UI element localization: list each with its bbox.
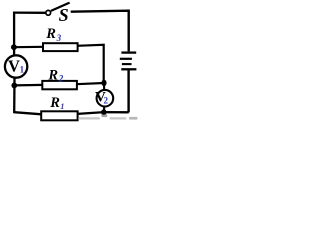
wire V2 top stub — [103, 83, 105, 90]
wire R3 row right, corner down to node — [77, 45, 104, 83]
resistor R1 body — [41, 111, 77, 120]
resistor R2 body — [42, 81, 77, 89]
svg-text:2: 2 — [104, 96, 109, 106]
svg-text:R: R — [47, 67, 58, 83]
svg-text:V: V — [8, 56, 20, 75]
node dot (R3/R2/V2 junction) — [101, 80, 106, 86]
wire R3 row left — [14, 46, 44, 49]
wire bottom (right corner to V2 node to R1 right) — [78, 112, 129, 114]
wire R2 row right to node — [76, 83, 104, 84]
wire left vertical (V1 bottom to bottom-left corner) — [13, 78, 16, 113]
switch S pole circle — [46, 10, 51, 15]
resistor R3 body — [43, 43, 78, 51]
wire V2 bottom stub — [103, 107, 105, 113]
battery plate 3 (short) — [122, 63, 132, 65]
junction dot V2 bottom — [101, 109, 106, 115]
switch S blade — [51, 3, 70, 11]
svg-text:1: 1 — [60, 101, 64, 111]
junction dot on left vertical at R2 row — [11, 83, 17, 89]
junction dot on left vertical at R3 row — [11, 44, 17, 50]
battery plate 1 (long, top) — [121, 51, 136, 53]
background — [0, 0, 141, 123]
wire bottom-left (R1 left to bottom-left corner) — [14, 112, 41, 114]
wire right vertical below battery to bottom-right corner — [127, 70, 129, 112]
svg-text:R: R — [45, 26, 56, 42]
svg-text:2: 2 — [58, 74, 64, 84]
battery plate 2 — [120, 58, 132, 60]
svg-text:1: 1 — [20, 65, 25, 75]
voltmeter V2 circle — [97, 90, 114, 107]
battery plate 4 (long, bottom) — [121, 68, 136, 70]
voltmeter V1 circle — [5, 55, 27, 77]
wire R2 row left — [14, 84, 43, 87]
svg-text:S: S — [59, 5, 69, 25]
wire top-right segment and right vertical down to battery — [71, 11, 129, 52]
svg-text:R: R — [49, 95, 60, 111]
wire top-left segment — [13, 11, 45, 13]
svg-text:3: 3 — [56, 33, 62, 43]
wire left vertical (top corner to V1 top) — [13, 12, 15, 56]
ghost watermark dashes bottom right — [78, 114, 138, 119]
